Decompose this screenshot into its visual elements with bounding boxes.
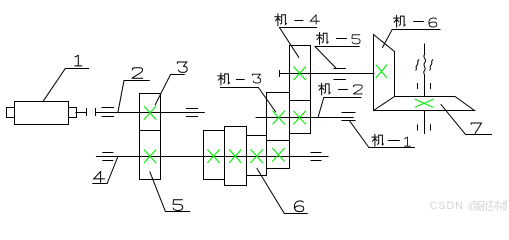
digit of JI-1 [405,137,411,146]
green X pulley P1 [376,65,386,77]
label JI-4 underline and leader [280,28,317,58]
label JI-1 underline and leader [350,121,415,148]
svg-text:CSDN @: CSDN @ [430,200,480,212]
digit 7 [471,123,481,134]
shaft IV left end tick [279,71,281,77]
glyph JI of label JI-1 [372,134,384,146]
shaft I [96,112,205,114]
label JI-2 underline and leader [318,98,361,118]
glyph JI of label JI-4 [275,14,287,26]
green X gearbox I lower [144,150,156,163]
digit of JI-5 [352,35,360,44]
shaft II left end marks [103,153,113,161]
shaft IV [280,73,374,75]
green X gear B [229,150,241,163]
gear F upper box [290,46,311,101]
coupling tick left [86,109,88,116]
green X gear A [208,150,220,163]
digit of JI-3 [252,74,260,83]
digit of JI-2 [353,85,362,94]
digit of JI-6 [429,18,437,27]
label JI-1 dash [388,140,399,142]
green X gearbox I upper [144,106,156,119]
label 5 leader [150,172,190,212]
gear D box [267,141,290,169]
vertical shaft 7 mid [424,75,426,97]
label 2 leader [118,81,149,113]
digit 1 [75,55,82,66]
glyph JI of label JI-5 [317,33,329,45]
gear B box [225,127,247,186]
shaft 7 break squiggle main [424,55,426,76]
gear A box [204,131,225,180]
gearbox I upper cell [140,94,161,131]
green X pulley P2 flat [415,99,433,107]
label JI-5 underline and leader [315,47,359,69]
vertical shaft 7 upper [424,44,426,55]
label JI-3 dash [236,79,244,81]
shaft III right end marks [342,113,355,121]
digit 4 [94,172,105,183]
label 3 leader [155,75,184,105]
digit 5 [173,200,183,211]
label 1 leader [43,69,88,102]
gear C box [247,136,267,176]
pulley P2 horizontal trapezoid [374,97,475,111]
label JI-2 dash [339,89,348,91]
label 4 leader [93,157,118,184]
label JI-3 underline and leader [221,88,276,112]
green X gear F upper [294,67,306,80]
bearing ticks above trapezoid [418,84,431,89]
digit of JI-4 [310,15,319,24]
shaft I right end marks [187,109,198,117]
glyph JI of label JI-2 [319,83,331,95]
label JI-5 dash [337,38,347,40]
label 7 leader [441,105,491,135]
motor right shaft stub [69,108,77,118]
motor left shaft stub [7,108,15,118]
shaft III [256,117,353,119]
shaft I left end marks [102,108,114,117]
vertical shaft 7 lower [424,111,426,134]
digit 2 [132,68,143,79]
watermark CJK glyph blocks [477,201,507,211]
shaft II [96,156,328,158]
coupling tick right [95,109,97,116]
digit 6 [294,201,303,212]
label JI-6 underline and leader [383,30,441,48]
green X gear C [251,150,263,163]
glyph JI of label JI-3 [218,73,230,85]
shaft IV mid marks [334,69,345,80]
label 6 leader [257,169,307,214]
glyph JI of label JI-6 [394,15,406,27]
green X gear D [273,148,285,161]
digit 3 [177,62,187,72]
shaft 7 break squiggle right [430,60,433,70]
gear F lower box [290,101,311,134]
gearbox I lower cell [140,131,161,180]
green X gear E [273,111,285,124]
shaft 7 break squiggle left [416,60,419,70]
label JI-6 dash [414,21,424,23]
shaft II right end marks [311,153,321,161]
gear E box [267,93,290,141]
motor output shaft segment [76,112,87,114]
label JI-4 dash [295,20,303,22]
motor M body [15,102,69,125]
green X gear F lower [294,111,306,124]
pulley P1 vertical quad [374,35,395,111]
bearing ticks below trapezoid [418,125,431,130]
